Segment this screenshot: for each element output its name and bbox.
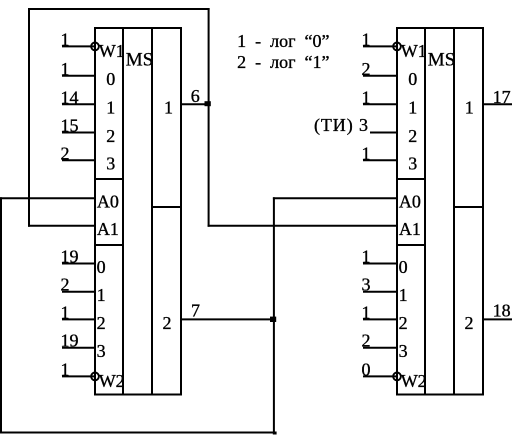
svg-text:2: 2 (106, 126, 115, 146)
svg-text:1 - лог “0”: 1 - лог “0” (237, 31, 329, 51)
svg-text:0: 0 (97, 257, 106, 277)
svg-text:15: 15 (61, 116, 79, 136)
svg-text:1: 1 (61, 359, 70, 379)
svg-text:0: 0 (106, 69, 115, 89)
svg-text:6: 6 (191, 86, 200, 106)
svg-text:7: 7 (191, 301, 200, 321)
svg-text:3: 3 (97, 341, 106, 361)
svg-text:3: 3 (362, 275, 371, 295)
svg-text:17: 17 (493, 87, 511, 107)
svg-text:MS: MS (126, 50, 153, 71)
svg-text:W1: W1 (99, 41, 125, 61)
svg-text:MS: MS (428, 50, 455, 71)
svg-text:W2: W2 (401, 371, 427, 391)
svg-text:1: 1 (61, 302, 70, 322)
svg-text:A1: A1 (97, 219, 119, 239)
svg-text:19: 19 (61, 247, 79, 267)
svg-text:0: 0 (362, 359, 371, 379)
svg-text:2: 2 (362, 331, 371, 351)
svg-text:1: 1 (399, 285, 408, 305)
svg-text:(ТИ) 3: (ТИ) 3 (314, 115, 369, 136)
svg-text:2: 2 (465, 313, 474, 333)
svg-text:2: 2 (408, 126, 417, 146)
svg-text:0: 0 (399, 257, 408, 277)
svg-text:2: 2 (163, 313, 172, 333)
svg-text:1: 1 (106, 98, 115, 118)
svg-text:1: 1 (408, 98, 417, 118)
svg-text:A0: A0 (97, 191, 119, 211)
svg-text:2: 2 (61, 143, 70, 163)
svg-text:1: 1 (465, 97, 474, 117)
svg-text:W2: W2 (99, 371, 125, 391)
svg-text:2: 2 (61, 275, 70, 295)
svg-text:3: 3 (408, 154, 417, 174)
svg-text:2: 2 (97, 313, 106, 333)
svg-text:1: 1 (362, 87, 371, 107)
svg-text:3: 3 (106, 154, 115, 174)
svg-text:14: 14 (61, 87, 79, 107)
svg-text:2 - лог “1”: 2 - лог “1” (237, 52, 329, 72)
svg-text:1: 1 (164, 97, 173, 117)
svg-text:1: 1 (362, 302, 371, 322)
svg-text:2: 2 (362, 59, 371, 79)
svg-text:3: 3 (399, 341, 408, 361)
svg-text:W1: W1 (401, 41, 427, 61)
svg-text:1: 1 (362, 143, 371, 163)
svg-text:A1: A1 (399, 219, 421, 239)
svg-text:A0: A0 (399, 191, 421, 211)
svg-text:0: 0 (408, 69, 417, 89)
svg-text:1: 1 (61, 59, 70, 79)
svg-text:1: 1 (61, 29, 70, 49)
svg-text:2: 2 (399, 313, 408, 333)
svg-text:1: 1 (97, 285, 106, 305)
svg-text:1: 1 (362, 29, 371, 49)
svg-text:18: 18 (493, 300, 511, 320)
svg-text:1: 1 (362, 247, 371, 267)
svg-text:19: 19 (61, 331, 79, 351)
